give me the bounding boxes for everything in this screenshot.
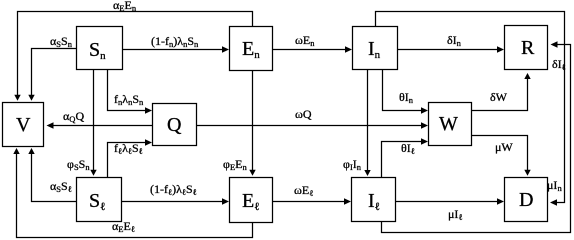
box In — [353, 27, 398, 70]
box Q — [153, 104, 197, 146]
arrowhead into El left — [222, 198, 229, 205]
svg-text:W: W — [439, 113, 458, 135]
svg-text:R: R — [521, 37, 535, 59]
svg-text:ωQ: ωQ — [295, 107, 312, 121]
arrowhead into V right from alphaQ-Q — [47, 122, 54, 129]
arrowhead into Sl top from phiS-Sn — [90, 170, 96, 176]
box W — [429, 103, 472, 146]
svg-text:(1-fℓ)λℓSℓ: (1-fℓ)λℓSℓ — [150, 182, 197, 197]
svg-text:(1-fn)λnSn: (1-fn)λnSn — [151, 34, 199, 49]
arrowhead into R bottom from delta-W — [524, 73, 530, 79]
svg-text:D: D — [519, 189, 533, 211]
svg-text:Q: Q — [167, 114, 182, 136]
box Sl — [77, 178, 122, 222]
wire mu-W : W right to D top — [472, 136, 528, 173]
arrowhead into D left from mu-Il — [497, 198, 504, 205]
arrowhead into En left — [222, 46, 229, 53]
box R — [505, 26, 548, 70]
wire phiE-En : En bottom to El top — [252, 71, 254, 173]
box V — [3, 103, 44, 147]
arrowhead into W left from theta-In — [421, 107, 428, 114]
wire omega-Q : Q right to W left — [197, 125, 424, 127]
arrowhead into W left from omega-Q — [421, 122, 428, 129]
wire delta-Il : Il bottom to R right — [382, 45, 571, 233]
wire delta-In : In right to R left — [398, 49, 500, 51]
svg-text:δW: δW — [490, 90, 508, 104]
wire phiS-Sn : Sn bottom to Sl top — [93, 70, 95, 173]
arrowhead into D right from mu-In — [550, 199, 557, 206]
wire mu-In : In top to D right — [376, 12, 565, 203]
svg-text:V: V — [16, 114, 31, 136]
wire theta-Il : Il top to W left — [382, 142, 424, 178]
wire omega-En : En right to In left — [273, 49, 348, 51]
arrowhead into R right from delta-Il — [551, 41, 558, 48]
box En — [230, 27, 273, 71]
wire alphaS-Sn : Sn left to V top — [32, 49, 77, 98]
wire alphaE-El : El bottom to V bottom — [17, 152, 253, 238]
wire theta-In : In bottom to W left — [383, 70, 424, 111]
box Il — [352, 178, 396, 222]
arrowhead into El top from phiE-En — [249, 170, 255, 176]
arrowhead into W left from theta-Il — [421, 138, 428, 145]
arrowhead into V bottom from alphaE-El — [13, 148, 19, 154]
wire mu-Il : Il right to D left — [396, 201, 500, 203]
arrowhead into In left — [345, 46, 352, 53]
wire fl-ll-Sl : Sl top to Q left — [108, 143, 148, 178]
arrowhead into Q left from fl-ll-Sl — [145, 139, 152, 146]
wire omega-El : El right to Il left — [273, 201, 347, 203]
wire (1-fl)ll-Sl : Sl right to El left — [122, 201, 225, 203]
arrowhead into V bottom from alphaS-Sl — [28, 148, 34, 154]
svg-text:μW: μW — [495, 140, 513, 154]
wire fn-ln-Sn : Sn bottom to Q left — [108, 70, 148, 111]
wire phiI-In : In bottom to Il top — [367, 70, 369, 173]
arrowhead into Q left from fn-ln-Sn — [145, 107, 152, 114]
arrowhead into Il left — [344, 198, 351, 205]
arrowhead into R left — [497, 46, 504, 53]
wire (1-fn)ln-Sn : Sn right to En left — [123, 49, 225, 51]
arrowhead into V top from alphaS-Sn — [28, 95, 34, 101]
arrowhead into Il top from phiI-In — [364, 170, 370, 176]
arrowhead into D top from mu-W — [524, 170, 530, 176]
wire alphaE-En : En top to V top — [18, 12, 253, 98]
box El — [230, 178, 273, 223]
box Sn — [77, 27, 123, 70]
wire alphaQ-Q : Q left to V right — [53, 125, 153, 127]
arrowhead into V top from alphaE-En — [14, 95, 20, 101]
wire delta-W : W right to R bottom — [472, 75, 528, 111]
box D — [505, 178, 548, 222]
wire alphaS-Sl : Sl left to V bottom — [32, 152, 77, 202]
